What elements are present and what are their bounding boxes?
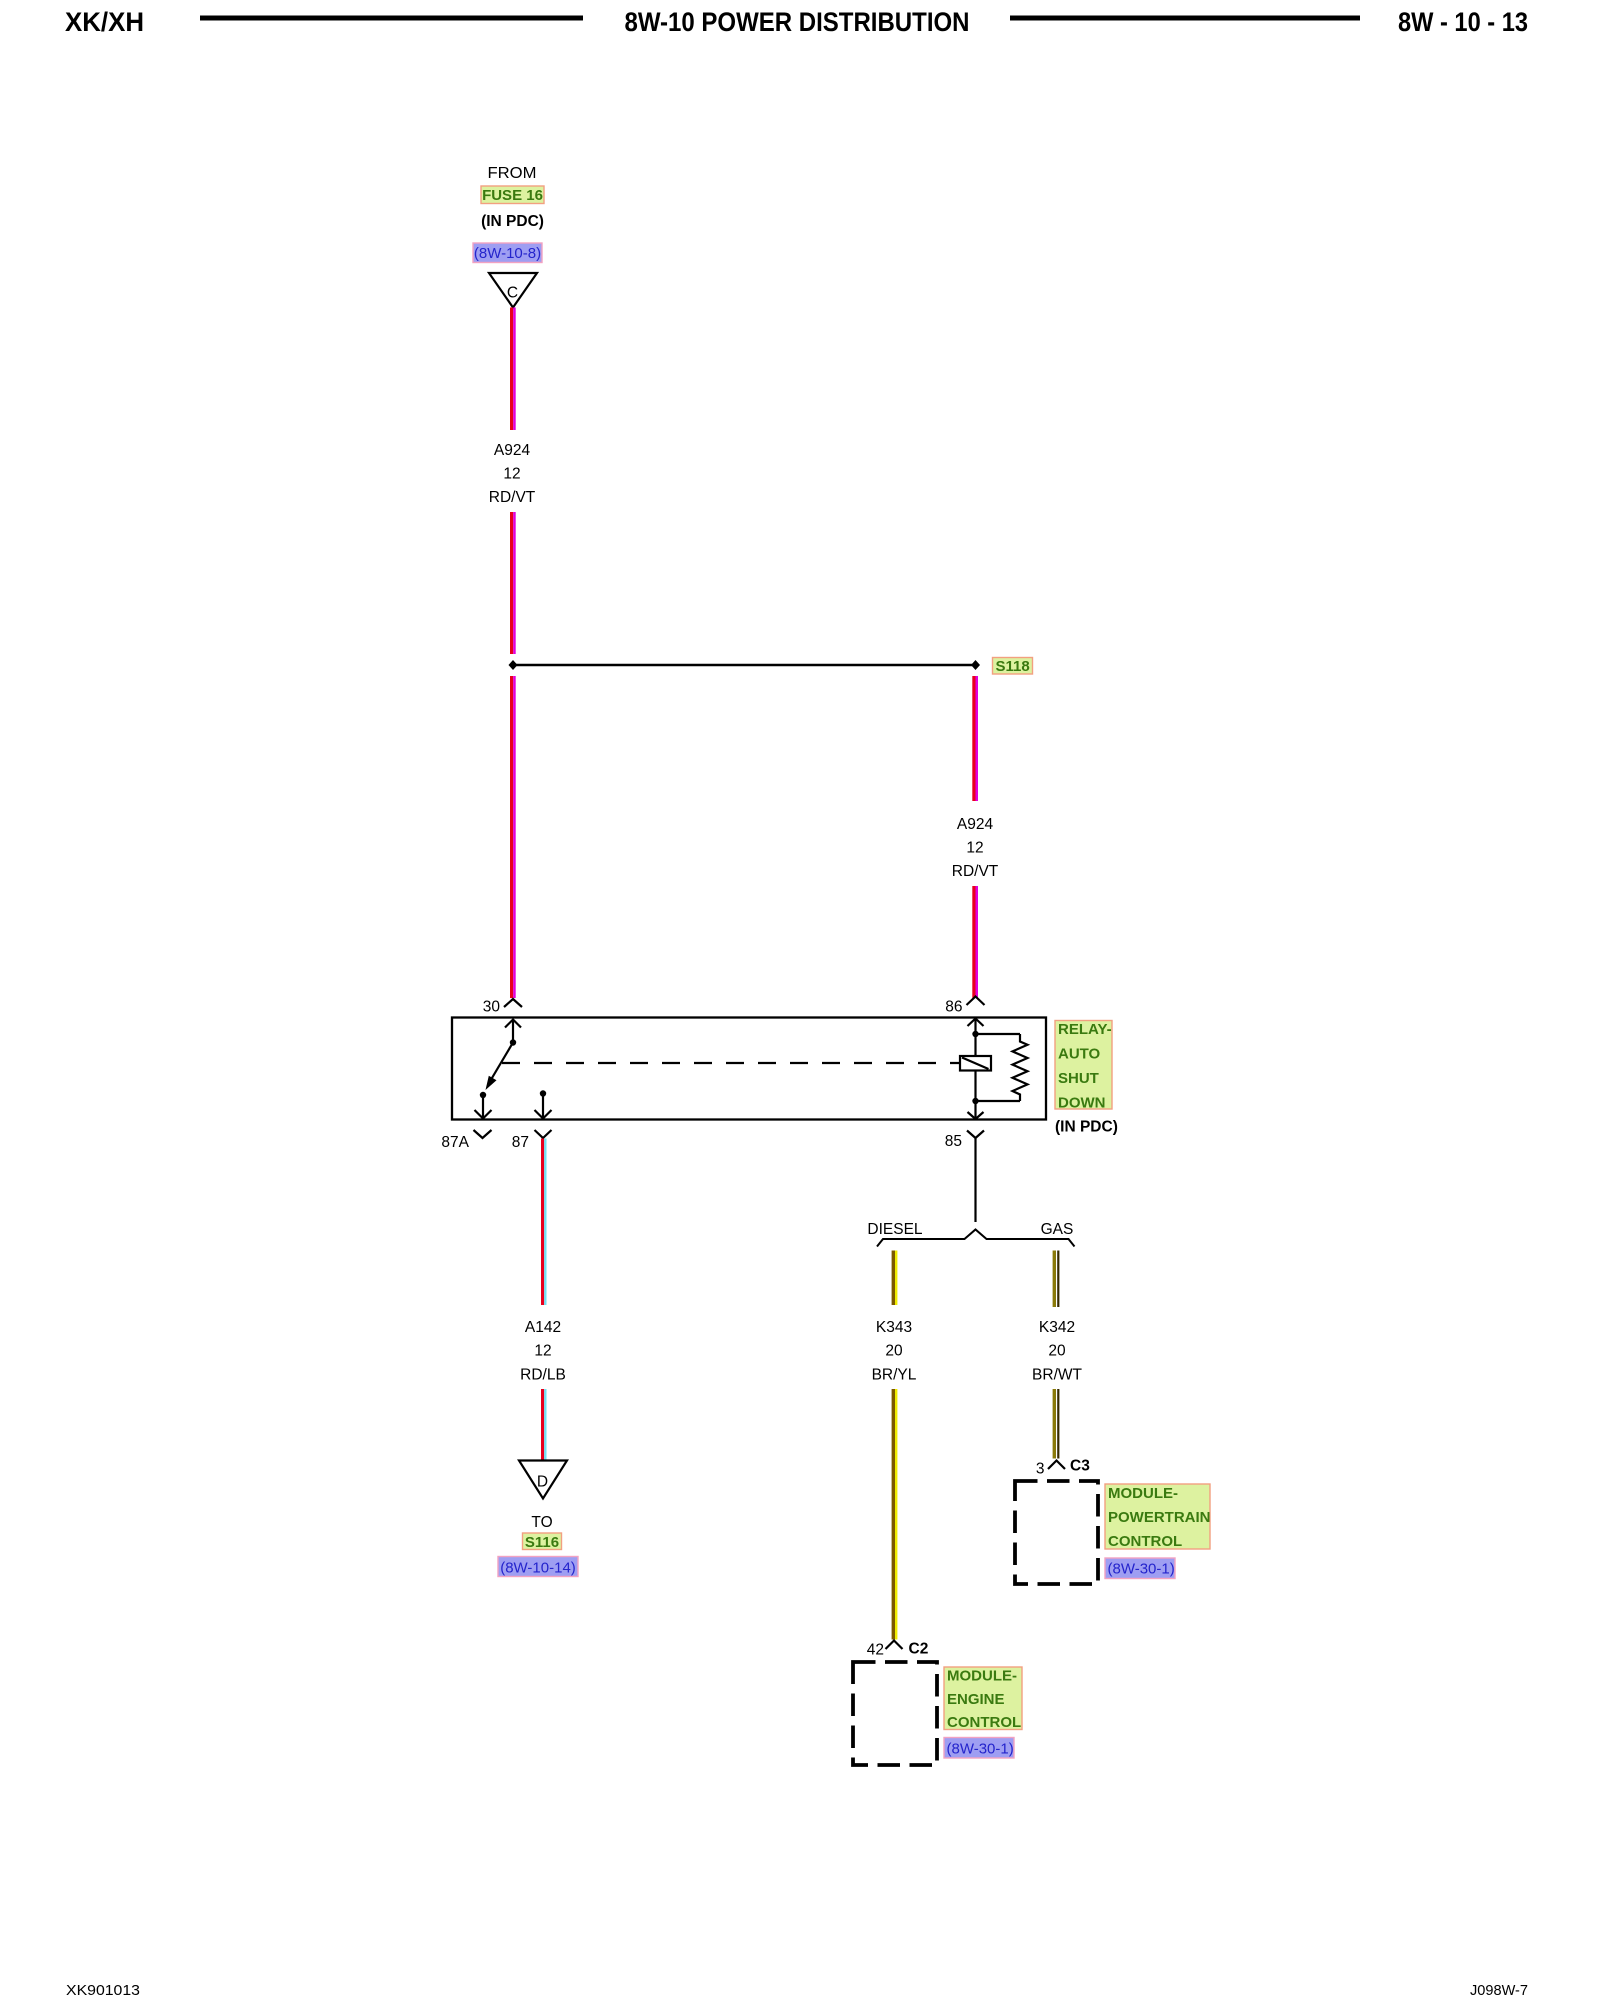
svg-text:(IN PDC): (IN PDC) — [1055, 1119, 1118, 1136]
wire K342 upper segment — [1053, 1251, 1060, 1308]
svg-text:RD/LB: RD/LB — [520, 1367, 566, 1384]
svg-text:K343: K343 — [876, 1319, 912, 1336]
svg-text:(8W-30-1): (8W-30-1) — [947, 1741, 1014, 1758]
svg-text:POWERTRAIN: POWERTRAIN — [1108, 1509, 1211, 1526]
svg-text:AUTO: AUTO — [1058, 1046, 1101, 1063]
svg-text:RELAY-: RELAY- — [1058, 1021, 1112, 1038]
off-page connector C — [489, 273, 537, 308]
svg-text:RD/VT: RD/VT — [952, 863, 999, 880]
label (IN PDC) relay — [1055, 1119, 1118, 1136]
svg-text:FUSE 16: FUSE 16 — [482, 187, 543, 204]
relay suppression resistor — [976, 1034, 1028, 1101]
svg-text:BR/WT: BR/WT — [1032, 1367, 1082, 1384]
svg-text:30: 30 — [483, 999, 501, 1016]
pin 87A connector symbol — [441, 1130, 491, 1151]
reference (8W-10-14) — [498, 1557, 578, 1577]
svg-text:87: 87 — [512, 1134, 529, 1151]
svg-text:TO: TO — [531, 1514, 552, 1531]
junction dot right — [971, 660, 980, 670]
wire label K343 20 BR/YL — [872, 1319, 917, 1384]
svg-text:87A: 87A — [441, 1134, 469, 1151]
svg-text:A924: A924 — [494, 442, 531, 459]
wire label A142 12 RD/LB — [520, 1319, 566, 1384]
relay contact 87A — [475, 1092, 492, 1119]
relay switch common from pin 30 — [505, 1020, 521, 1046]
svg-text:MODULE-: MODULE- — [947, 1668, 1017, 1685]
svg-text:BR/YL: BR/YL — [872, 1367, 917, 1384]
wire K342 lower segment to PCM — [1053, 1389, 1060, 1459]
reference (8W-30-1) PCM — [1105, 1558, 1175, 1579]
pin 85 connector symbol — [945, 1131, 984, 1151]
header page number — [1398, 7, 1528, 37]
label MODULE-POWERTRAIN CONTROL — [1105, 1484, 1211, 1550]
wire A924 segment to splice S118 — [510, 512, 516, 654]
svg-text:FROM: FROM — [488, 165, 537, 182]
splice S118 horizontal wire — [513, 664, 976, 666]
wire A142 upper segment from pin 87 — [541, 1139, 547, 1306]
relay contact 87 — [535, 1090, 552, 1118]
relay actuation dashed link — [502, 1062, 960, 1064]
branch bracket DIESEL/GAS — [877, 1230, 1075, 1247]
pin 3 connector C3 — [1036, 1458, 1090, 1478]
svg-text:GAS: GAS — [1041, 1221, 1074, 1238]
svg-text:20: 20 — [1048, 1343, 1066, 1360]
reference (8W-30-1) ECM — [944, 1738, 1014, 1759]
svg-text:8W - 10 - 13: 8W - 10 - 13 — [1398, 7, 1528, 37]
svg-text:A142: A142 — [525, 1319, 561, 1336]
wire A142 lower segment to connector D — [541, 1389, 547, 1461]
svg-text:(8W-10-14): (8W-10-14) — [500, 1560, 576, 1577]
splice label S118 — [993, 658, 1033, 676]
svg-text:12: 12 — [534, 1343, 551, 1360]
svg-text:ENGINE: ENGINE — [947, 1691, 1005, 1708]
svg-text:K342: K342 — [1039, 1319, 1075, 1336]
header rule right — [1010, 16, 1360, 21]
relay switch arm toward 87A — [486, 1043, 514, 1091]
fuse reference label FUSE 16 — [481, 186, 544, 204]
svg-text:XK901013: XK901013 — [66, 1982, 140, 1999]
label DIESEL — [867, 1221, 923, 1238]
svg-text:XK/XH: XK/XH — [65, 7, 144, 37]
svg-text:DOWN: DOWN — [1058, 1095, 1106, 1112]
header title — [625, 7, 970, 37]
wire label K342 20 BR/WT — [1032, 1319, 1082, 1384]
svg-text:(8W-10-8): (8W-10-8) — [474, 245, 541, 262]
wire from relay pin 85 — [974, 1138, 976, 1222]
pin 87 connector symbol — [512, 1130, 552, 1151]
module ECM dashed box — [853, 1662, 937, 1765]
svg-text:MODULE-: MODULE- — [1108, 1485, 1178, 1502]
wire A924 segment from connector C — [510, 308, 516, 431]
svg-text:(IN PDC): (IN PDC) — [481, 213, 544, 230]
label TO — [531, 1514, 552, 1531]
svg-text:CONTROL: CONTROL — [1108, 1533, 1182, 1550]
splice reference S116 — [523, 1533, 562, 1551]
svg-text:85: 85 — [945, 1133, 962, 1150]
relay coil to pin 85 — [968, 1071, 984, 1120]
svg-text:20: 20 — [885, 1343, 903, 1360]
footer drawing code — [1470, 1982, 1528, 1999]
module PCM dashed box — [1015, 1481, 1098, 1584]
svg-text:CONTROL: CONTROL — [947, 1714, 1021, 1731]
relay coil feed from pin 86 — [968, 1019, 984, 1057]
svg-text:S116: S116 — [525, 1534, 559, 1551]
wire label A924 12 RD/VT upper — [489, 442, 536, 506]
wire A924 right segment below splice — [972, 676, 978, 801]
svg-text:12: 12 — [966, 840, 983, 857]
svg-text:86: 86 — [945, 999, 962, 1016]
wire A924 right segment to relay pin 86 — [972, 886, 978, 998]
svg-text:D: D — [537, 1474, 548, 1491]
svg-text:RD/VT: RD/VT — [489, 489, 536, 506]
label GAS — [1041, 1221, 1074, 1238]
relay label RELAY-AUTO SHUT DOWN — [1055, 1021, 1112, 1112]
svg-text:C3: C3 — [1070, 1458, 1090, 1475]
label MODULE-ENGINE CONTROL — [944, 1667, 1022, 1731]
svg-text:A924: A924 — [957, 816, 994, 833]
label (IN PDC) top — [481, 213, 544, 230]
wire K343 upper segment — [892, 1251, 898, 1306]
junction dot left — [509, 660, 518, 670]
reference (8W-10-8) — [473, 243, 542, 263]
header model label XK/XH — [65, 7, 144, 37]
pin 30 connector symbol — [483, 999, 522, 1016]
wire A924 left segment to relay pin 30 — [510, 676, 516, 998]
label FROM — [488, 165, 537, 182]
svg-text:DIESEL: DIESEL — [867, 1221, 923, 1238]
svg-text:8W-10 POWER DISTRIBUTION: 8W-10 POWER DISTRIBUTION — [625, 7, 970, 37]
svg-text:S118: S118 — [996, 658, 1030, 675]
wire label A924 12 RD/VT right — [952, 816, 999, 880]
svg-text:J098W-7: J098W-7 — [1470, 1982, 1528, 1999]
svg-text:C: C — [507, 285, 518, 302]
pin 86 connector symbol — [945, 997, 984, 1016]
wire K343 lower segment to ECM — [892, 1389, 898, 1640]
svg-text:42: 42 — [867, 1642, 884, 1659]
footer sheet code — [66, 1982, 140, 1999]
off-page connector D — [519, 1461, 567, 1499]
svg-text:C2: C2 — [909, 1641, 929, 1658]
relay coil box — [960, 1056, 991, 1071]
svg-text:(8W-30-1): (8W-30-1) — [1108, 1561, 1175, 1578]
relay box outline — [452, 1018, 1046, 1120]
pin 42 connector C2 — [867, 1641, 929, 1659]
svg-text:12: 12 — [503, 466, 520, 483]
svg-text:SHUT: SHUT — [1058, 1070, 1099, 1087]
header rule left — [200, 16, 583, 21]
svg-text:3: 3 — [1036, 1461, 1045, 1478]
